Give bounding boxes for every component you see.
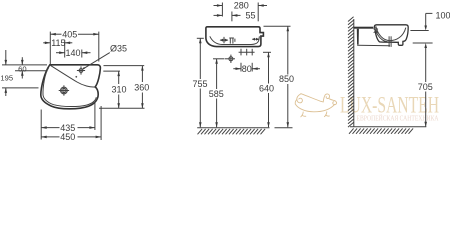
left reference line B (faucet level) xyxy=(15,70,46,72)
basin interior line (front view) xyxy=(210,36,260,44)
tap holes line (front view) xyxy=(239,49,255,56)
basin outline (top view) xyxy=(41,65,101,109)
deck crease line (top view) xyxy=(50,65,95,87)
watermark bathtub icon xyxy=(295,94,336,117)
dim 405 (top) xyxy=(50,29,99,64)
dim 850 (view2 right) xyxy=(279,26,294,127)
dim 450 (view1 bottom) xyxy=(41,132,101,142)
svg-text:705: 705 xyxy=(418,82,433,92)
overflow dot (top view) xyxy=(75,76,77,78)
svg-text:55: 55 xyxy=(246,11,256,21)
dim 640 (view2 right) xyxy=(259,52,274,127)
dim 755 (view2 left) xyxy=(193,38,208,127)
dim 60 (left) xyxy=(18,57,26,78)
bowl inner arc (view3) xyxy=(376,26,406,40)
dim 80 (view2 below taps) xyxy=(233,63,260,74)
left reference line A (top edge extension) xyxy=(2,64,47,66)
dim 435 (view1 bottom) xyxy=(41,123,95,133)
svg-text:140: 140 xyxy=(66,48,81,58)
fixing hole symbol right (front view) xyxy=(252,38,259,41)
basin inner rim (top view) xyxy=(43,68,96,107)
dim 705 (view3 right) xyxy=(418,43,433,127)
svg-text:310: 310 xyxy=(112,84,127,94)
fixing hole symbol left (front view) xyxy=(220,37,229,43)
dim 280 (view2 top) xyxy=(214,1,268,22)
mounting bracket bar (view3) xyxy=(357,29,359,45)
svg-text:450: 450 xyxy=(60,132,75,142)
dim 115 (top) xyxy=(43,38,72,58)
dim 140 (top) xyxy=(56,48,91,58)
leader line for faucet hole diameter xyxy=(83,53,110,70)
underside line (view3) xyxy=(357,44,390,47)
dim 585 (view2 left) xyxy=(209,59,224,128)
faucet hole symbol (top view) xyxy=(77,66,85,74)
floor hatching (view3) xyxy=(349,128,413,133)
mounting arm (view3) xyxy=(354,27,374,29)
floor line (view3) xyxy=(350,126,426,128)
svg-text:640: 640 xyxy=(259,83,274,93)
dim 100 bracket (view3 right) xyxy=(424,10,450,30)
lower reference line (view3 right) xyxy=(413,42,433,44)
svg-text:280: 280 xyxy=(234,1,249,11)
dim 195 (left) xyxy=(0,50,13,96)
left reference line C (drain level) xyxy=(2,87,39,89)
tap hole cross (view3) xyxy=(374,29,378,33)
bowl inner arc 2 (view3) xyxy=(375,29,388,42)
svg-text:115: 115 xyxy=(51,38,65,48)
drain pipe lines (view3) xyxy=(388,36,390,47)
svg-text:360: 360 xyxy=(134,82,149,92)
svg-text:755: 755 xyxy=(193,79,208,89)
svg-text:Ø35: Ø35 xyxy=(110,44,127,54)
svg-text:100: 100 xyxy=(436,10,450,20)
bottom extension lines (view1) xyxy=(40,110,42,140)
svg-text:850: 850 xyxy=(279,74,294,84)
svg-text:195: 195 xyxy=(0,73,13,82)
bracket marks (front view) xyxy=(229,38,235,44)
dim 360 (view1 right) xyxy=(134,66,149,109)
wall line (view3) xyxy=(353,19,355,127)
svg-text:585: 585 xyxy=(209,89,224,99)
drain symbol (front view) xyxy=(225,55,236,63)
svg-text:60: 60 xyxy=(18,64,26,73)
dim 55 (view2 top) xyxy=(214,11,256,22)
floor hatching (view2) xyxy=(198,129,266,134)
floor line (view2) xyxy=(197,127,269,129)
drain symbol (top view) xyxy=(59,85,69,95)
bowl outline (view3) xyxy=(374,25,408,46)
svg-text:80: 80 xyxy=(242,64,252,74)
right reference line bottom (view1) xyxy=(99,107,145,109)
dim 310 (view1 right) xyxy=(112,71,127,108)
basin body (front view) xyxy=(206,27,264,47)
right reference line faucet level (view1) xyxy=(103,70,120,72)
top reference line (view2 right) xyxy=(264,25,291,27)
upper reference line (view3 right) xyxy=(410,30,428,32)
wall hatching (view3) xyxy=(348,17,354,127)
right reference line top (view1) xyxy=(104,65,145,67)
floor line right segment (view2) xyxy=(275,127,293,129)
